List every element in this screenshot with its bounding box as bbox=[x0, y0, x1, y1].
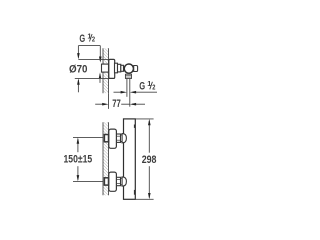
valve body circle (top view) bbox=[124, 64, 133, 73]
collar bbox=[121, 135, 123, 142]
wall nut bbox=[104, 178, 108, 185]
outlet stub with thread (top view) bbox=[125, 74, 131, 78]
150±15 dimension bbox=[73, 137, 103, 181]
hook detail top right of body bbox=[134, 125, 136, 128]
G1/2 top leader staple bbox=[77, 46, 102, 63]
escutcheon bbox=[109, 129, 117, 148]
G1/2 right label (top view) bbox=[139, 79, 155, 93]
top union assembly (front view) bbox=[104, 129, 126, 148]
G1/2 top label bbox=[79, 31, 95, 45]
bottom union assembly (front view) bbox=[104, 172, 126, 191]
union nut 2 (top view) bbox=[118, 64, 121, 72]
svg-text:298: 298 bbox=[142, 154, 157, 166]
svg-text:G: G bbox=[139, 81, 145, 93]
Ø70 dimension bbox=[75, 59, 109, 92]
union nut bbox=[116, 134, 120, 142]
svg-text:77: 77 bbox=[112, 98, 121, 110]
union nut bbox=[116, 177, 120, 185]
wall (top view) hatched band bbox=[103, 48, 109, 93]
union nut (top view) bbox=[115, 63, 118, 73]
connector piece (top view) bbox=[121, 65, 124, 71]
G1/2 outlet dimension arrows bbox=[114, 91, 158, 94]
boss on body bbox=[122, 134, 126, 143]
svg-text:150±15: 150±15 bbox=[64, 154, 93, 166]
body bar (front view) bbox=[124, 119, 136, 199]
G1/2 wall elbow behind wall (top view) bbox=[102, 64, 109, 72]
svg-text:Ø70: Ø70 bbox=[69, 64, 88, 76]
escutcheon Ø70 (top view) bbox=[109, 59, 115, 78]
svg-text:2: 2 bbox=[92, 35, 95, 44]
collar bbox=[121, 178, 123, 185]
wall nut bbox=[104, 135, 108, 142]
wall (front view) hatched band bbox=[103, 122, 109, 195]
77 dimension bbox=[95, 93, 145, 109]
escutcheon bbox=[109, 172, 117, 191]
298 dimension bbox=[136, 119, 154, 199]
boss on body bbox=[122, 177, 126, 186]
G1/2 elbow lower arrow (pointing up) bbox=[99, 72, 102, 83]
svg-text:G: G bbox=[79, 33, 85, 45]
svg-text:2: 2 bbox=[152, 83, 155, 92]
hook detail bottom right of body bbox=[134, 190, 136, 195]
knob right of circle (top view) bbox=[134, 66, 138, 72]
outlet pipe lines (top view) bbox=[126, 78, 128, 96]
